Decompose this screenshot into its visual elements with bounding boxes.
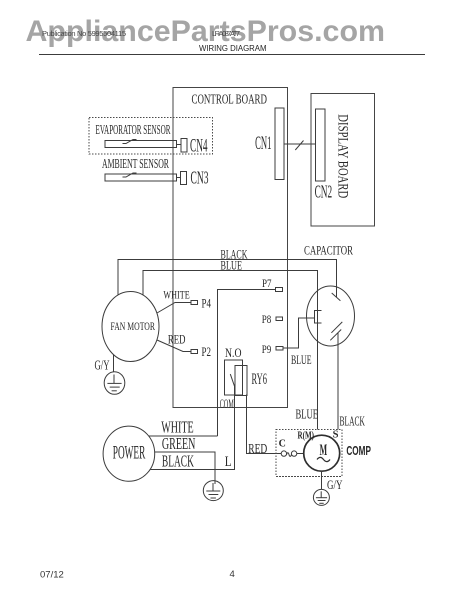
- svg-text:R(M): R(M): [298, 430, 315, 442]
- wire fan white to P4: [157, 303, 191, 314]
- svg-text:CN2: CN2: [315, 182, 333, 202]
- capacitor C1 body: [307, 286, 355, 346]
- fan motor FM1: [102, 292, 159, 362]
- svg-text:BLACK: BLACK: [340, 413, 366, 428]
- svg-text:CN1: CN1: [255, 134, 271, 154]
- svg-text:FAN MOTOR: FAN MOTOR: [111, 319, 156, 333]
- wire evaporator sensor to CN4: [177, 143, 182, 145]
- svg-text:G/Y: G/Y: [327, 477, 343, 492]
- wire fan to ground: [113, 355, 115, 372]
- wire power black to L: [151, 469, 235, 471]
- wire relay COM to line L: [234, 387, 236, 471]
- wire P7 to neutral line: [218, 290, 276, 436]
- svg-text:COM: COM: [220, 396, 234, 411]
- connector CN3 pin: [181, 172, 187, 185]
- ambient sensor thermistor mark: [123, 173, 137, 177]
- svg-text:CAPACITOR: CAPACITOR: [304, 244, 353, 258]
- display board outline: [311, 94, 375, 227]
- svg-text:P9: P9: [262, 342, 272, 356]
- svg-text:RED: RED: [168, 332, 186, 347]
- svg-text:LRA087AT7: LRA087AT7: [212, 29, 240, 38]
- svg-text:DISPLAY BOARD: DISPLAY BOARD: [335, 114, 351, 198]
- power plug P1: [103, 426, 155, 481]
- capacitor bottom terminal marks: [330, 322, 342, 340]
- wire black fan to capacitor: [118, 259, 337, 297]
- evaporator sensor thermistor mark: [123, 140, 137, 144]
- control board U1 outline: [173, 88, 288, 408]
- svg-text:N.O: N.O: [225, 345, 242, 360]
- svg-text:M: M: [320, 442, 328, 459]
- evaporator sensor body: [105, 141, 177, 148]
- wire CN1 to CN2: [284, 143, 316, 145]
- svg-text:CN4: CN4: [190, 135, 208, 156]
- wire motor to ground: [321, 471, 323, 489]
- svg-text:AMBIENT SENSOR: AMBIENT SENSOR: [102, 156, 169, 171]
- wire relay NO to compressor (red): [247, 395, 282, 454]
- fan ground symbol: [104, 372, 125, 395]
- power ground symbol: [203, 481, 223, 501]
- svg-text:CN3: CN3: [191, 168, 209, 188]
- svg-text:EVAPORATOR SENSOR: EVAPORATOR SENSOR: [96, 123, 171, 138]
- wire ambient sensor to CN3: [177, 177, 181, 179]
- ambient sensor body: [105, 174, 177, 181]
- wire overload to motor: [297, 453, 304, 455]
- svg-text:GREEN: GREEN: [162, 434, 196, 453]
- svg-text:POWER: POWER: [113, 443, 146, 464]
- svg-text:BLACK: BLACK: [162, 452, 194, 471]
- svg-text:4: 4: [230, 569, 235, 580]
- svg-text:BLUE: BLUE: [291, 352, 312, 367]
- compressor motor M1: [304, 435, 340, 471]
- svg-text:07/12: 07/12: [40, 569, 64, 580]
- evaporator sensor dashed enclosure: [89, 118, 213, 155]
- relay switch blade: [230, 374, 234, 386]
- compressor protective dashed enclosure: [276, 430, 342, 477]
- svg-text:L: L: [225, 454, 232, 470]
- terminal P8 pin: [276, 317, 283, 321]
- svg-text:RED: RED: [248, 441, 267, 456]
- wire black capacitor to compressor: [337, 333, 339, 430]
- relay RY6 inner box: [235, 365, 247, 395]
- overload protector OL1: [281, 451, 297, 457]
- svg-text:BLUE: BLUE: [296, 407, 319, 422]
- wire P9 to capacitor terminal: [283, 318, 315, 348]
- svg-text:C: C: [279, 439, 286, 450]
- svg-text:CONTROL BOARD: CONTROL BOARD: [192, 92, 268, 107]
- wire fan red to P2: [157, 340, 191, 352]
- svg-text:P7: P7: [262, 276, 272, 290]
- wire blue fan to capacitor terminal to compressor: [143, 271, 318, 430]
- header rule line: [39, 54, 425, 56]
- capacitor terminal bracket: [315, 311, 322, 324]
- terminal P4 pin: [191, 301, 198, 305]
- terminal P2 pin: [191, 350, 198, 354]
- svg-text:COMP: COMP: [346, 443, 371, 458]
- connector CN2: [316, 109, 326, 181]
- relay RY6 outer box: [225, 360, 243, 395]
- bus slash mark: [295, 141, 303, 151]
- svg-text:P4: P4: [202, 296, 212, 310]
- connector CN1: [275, 108, 284, 180]
- svg-text:WHITE: WHITE: [163, 287, 189, 301]
- wire power white neutral: [149, 435, 218, 437]
- svg-text:G/Y: G/Y: [95, 357, 110, 372]
- wire power green to ground: [155, 452, 216, 484]
- svg-text:WIRING DIAGRAM: WIRING DIAGRAM: [199, 44, 267, 53]
- svg-text:P8: P8: [262, 312, 272, 326]
- svg-text:Publication No 5995504115: Publication No 5995504115: [42, 29, 126, 38]
- capacitor top terminal mark: [332, 293, 341, 301]
- motor tilde mark: [317, 457, 330, 461]
- compressor ground symbol: [313, 489, 329, 505]
- terminal P7 pin: [276, 288, 283, 292]
- connector CN4 pin: [181, 139, 187, 153]
- terminal P9 pin: [276, 347, 283, 351]
- svg-text:RY6: RY6: [252, 371, 268, 388]
- svg-text:P2: P2: [202, 345, 212, 359]
